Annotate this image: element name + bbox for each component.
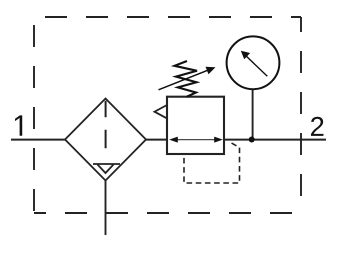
relief vent triangle on regulator left edge xyxy=(155,105,168,118)
enclosure dashed border: top side xyxy=(34,16,301,18)
port label 2 xyxy=(311,117,323,136)
pressure gauge G1: dial circle xyxy=(227,36,280,89)
adjustment arrow through spring xyxy=(159,67,216,90)
condensate drain: chord line xyxy=(93,163,120,165)
enclosure dashed border: right side xyxy=(300,17,302,213)
regulator R1: body square xyxy=(167,97,224,154)
junction node on outlet line xyxy=(249,137,255,143)
spring: zigzag above regulator xyxy=(175,61,198,97)
wire: regulator to port 2 outlet xyxy=(224,139,326,141)
wire: gauge drop line xyxy=(252,89,254,139)
gauge needle with arrowhead xyxy=(241,51,267,77)
condensate drain: inner V xyxy=(98,165,114,174)
regulator flow path: double-headed arrow xyxy=(169,137,223,143)
filter F1: diamond body xyxy=(65,99,146,181)
enclosure dashed border: bottom side xyxy=(34,212,301,214)
wire: drain line down xyxy=(105,181,107,236)
port label 1 xyxy=(15,115,22,135)
enclosure dashed border: left side xyxy=(33,17,35,213)
wire: filter to regulator xyxy=(145,139,167,141)
wire: inlet line port 1 to filter xyxy=(11,139,66,141)
filter element: dashed vertical line xyxy=(105,101,107,148)
pilot feedback dashed line xyxy=(184,141,240,183)
